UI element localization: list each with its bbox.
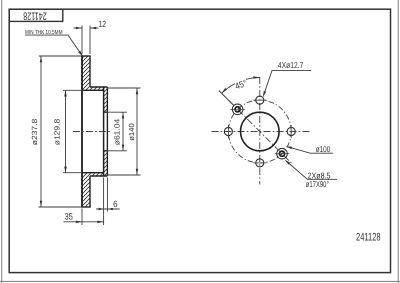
dim dia129.8 extension lines bbox=[63, 89, 82, 91]
countersunk hole upper-left (dia8.5/17x90) bbox=[232, 104, 243, 115]
4Xdia12.7 leader bbox=[264, 71, 311, 96]
disc outer edge top bbox=[81, 55, 90, 57]
hub plate right face bbox=[106, 87, 108, 176]
dim 6 line + arrows bbox=[96, 208, 120, 210]
dim dia140 line bbox=[136, 88, 138, 175]
bore top edge bbox=[104, 111, 108, 113]
svg-text:ø237.8: ø237.8 bbox=[30, 119, 39, 146]
dia100 leader bbox=[288, 147, 333, 153]
countersunk hole lower-right (dia8.5/17x90) bbox=[277, 148, 288, 159]
dim 12 extension lines bbox=[81, 26, 83, 55]
MIN THK underline + leader bbox=[25, 35, 83, 56]
page left edge line bbox=[1, 0, 3, 283]
bolt hole top (dia12.7) bbox=[256, 96, 264, 104]
bore bottom edge bbox=[104, 150, 108, 152]
dim dia237.8 extension lines bbox=[39, 55, 82, 57]
svg-text:4Xø12.7: 4Xø12.7 bbox=[278, 60, 304, 70]
disc right face lower bbox=[89, 176, 91, 207]
hatching: disc lower bar bbox=[82, 173, 90, 207]
hub plate left face bbox=[103, 87, 105, 176]
front view vertical centerline bbox=[259, 77, 261, 185]
svg-text:ø100: ø100 bbox=[316, 144, 331, 154]
svg-text:6: 6 bbox=[113, 199, 118, 209]
hat cylinder outer top edge bbox=[90, 86, 107, 88]
hatching: hub plate upper bbox=[104, 87, 108, 112]
section axis centerline bbox=[73, 131, 112, 133]
dim 35/6 extension lines bbox=[81, 209, 83, 226]
bolt circle (dash-dot) bbox=[228, 100, 291, 163]
bolt hole left (dia12.7) bbox=[224, 127, 232, 135]
disc left face line bbox=[81, 56, 83, 207]
disc right face upper bbox=[89, 56, 91, 87]
svg-text:241128: 241128 bbox=[23, 9, 47, 21]
page right edge line bbox=[397, 0, 399, 283]
page bottom edge line bbox=[0, 280, 400, 282]
hat cylinder inner top edge bbox=[82, 89, 104, 91]
2Xdia8.5 leader bbox=[286, 161, 337, 179]
hat cylinder inner bottom edge bbox=[82, 172, 104, 174]
dim dia237.8 line bbox=[40, 56, 42, 207]
hatching: hat strip upper bbox=[90, 87, 104, 90]
svg-text:ø129.8: ø129.8 bbox=[53, 119, 62, 146]
front view diagonal centerline bbox=[229, 101, 291, 164]
dim dia61.04 extension lines bbox=[104, 111, 127, 113]
45deg arc + arrows bbox=[246, 78, 260, 80]
dim dia61.04 line bbox=[122, 112, 124, 151]
hatching: hat strip lower bbox=[90, 173, 104, 176]
hat cylinder outer bottom edge bbox=[90, 175, 107, 177]
disc outer edge bottom bbox=[81, 206, 90, 208]
svg-text:ø140: ø140 bbox=[127, 123, 136, 141]
hatching: disc upper bar bbox=[82, 56, 90, 90]
front view horizontal centerline bbox=[212, 131, 310, 133]
svg-text:ø61.04: ø61.04 bbox=[113, 119, 122, 146]
svg-text:ø17X90°: ø17X90° bbox=[306, 179, 329, 189]
svg-text:35: 35 bbox=[64, 211, 73, 221]
bolt hole right (dia12.7) bbox=[287, 127, 295, 135]
dim dia140 extension lines bbox=[107, 87, 140, 89]
45deg radial line bbox=[219, 91, 234, 106]
dim 12 line + arrows bbox=[74, 27, 83, 29]
svg-text:12: 12 bbox=[99, 19, 107, 29]
hatching: hub plate lower bbox=[104, 151, 108, 176]
bolt hole bottom (dia12.7) bbox=[256, 159, 264, 167]
centre bore circle bbox=[240, 112, 279, 151]
title box bbox=[9, 9, 63, 21]
dim 35 line + arrows bbox=[64, 221, 104, 223]
dim dia129.8 line bbox=[65, 90, 67, 172]
svg-text:241128: 241128 bbox=[356, 231, 381, 243]
